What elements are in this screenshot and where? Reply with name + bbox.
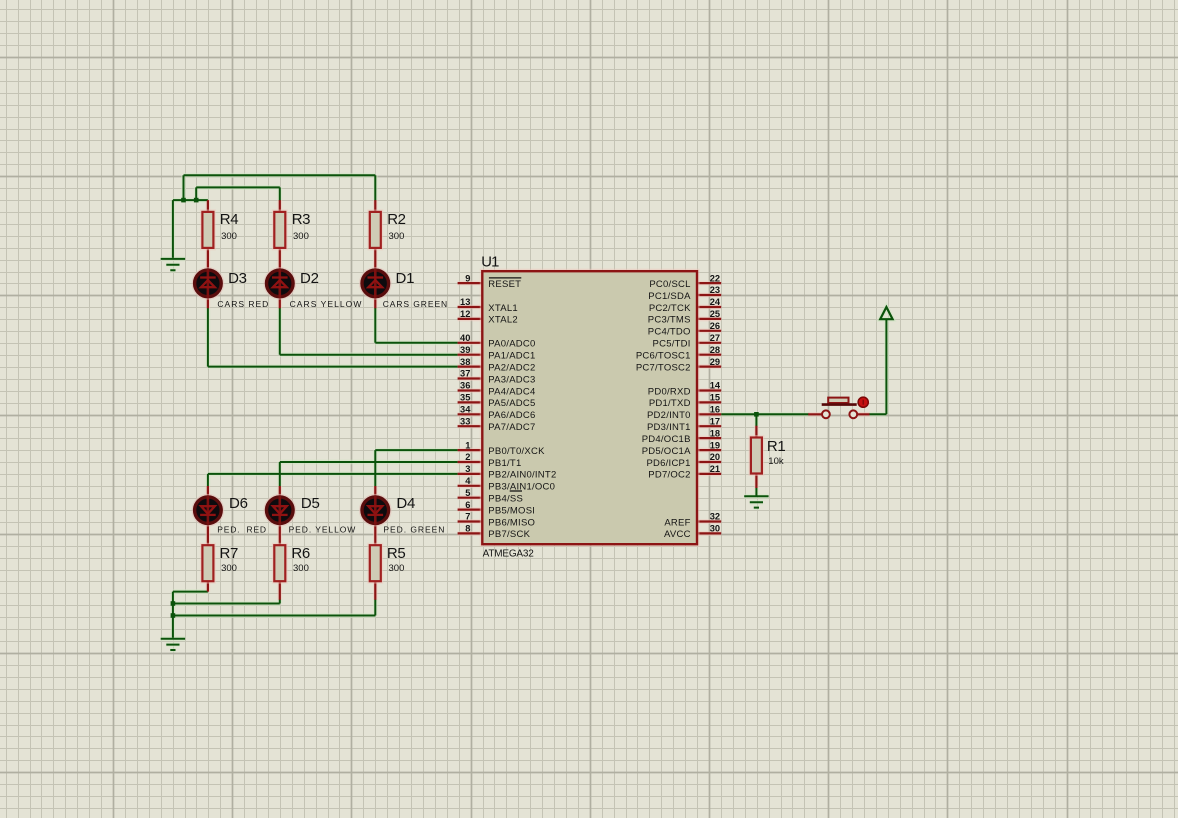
svg-text:PD7/OC2: PD7/OC2 (648, 470, 690, 481)
svg-text:9: 9 (465, 273, 470, 283)
svg-text:PD0/RXD: PD0/RXD (648, 386, 691, 397)
svg-text:PB4/SS: PB4/SS (488, 494, 523, 505)
svg-text:XTAL2: XTAL2 (488, 315, 518, 326)
svg-text:D2: D2 (300, 270, 319, 287)
svg-text:PD1/TXD: PD1/TXD (649, 398, 691, 409)
svg-text:R7: R7 (220, 545, 238, 562)
svg-text:AVCC: AVCC (664, 529, 691, 540)
svg-text:PB7/SCK: PB7/SCK (488, 529, 530, 540)
svg-text:300: 300 (221, 563, 237, 574)
svg-text:PA3/ADC3: PA3/ADC3 (488, 374, 535, 385)
svg-text:U1: U1 (481, 255, 499, 271)
svg-text:37: 37 (460, 369, 470, 379)
svg-text:CARS GREEN: CARS GREEN (383, 299, 448, 309)
svg-text:R1: R1 (767, 438, 785, 455)
svg-text:RESET: RESET (488, 279, 521, 290)
svg-text:D4: D4 (396, 495, 415, 512)
svg-text:PED. GREEN: PED. GREEN (383, 525, 445, 535)
svg-text:PC3/TMS: PC3/TMS (648, 315, 691, 326)
svg-text:PB5/MOSI: PB5/MOSI (488, 505, 535, 516)
svg-text:300: 300 (293, 231, 309, 242)
svg-text:13: 13 (460, 297, 470, 307)
svg-text:6: 6 (465, 500, 470, 510)
svg-text:R3: R3 (292, 211, 310, 228)
svg-text:17: 17 (710, 416, 720, 426)
svg-text:PB2/AIN0/INT2: PB2/AIN0/INT2 (488, 470, 556, 481)
svg-text:D6: D6 (229, 495, 248, 512)
svg-text:16: 16 (710, 405, 720, 415)
svg-text:D1: D1 (396, 270, 415, 287)
svg-text:34: 34 (460, 405, 471, 415)
svg-text:PB6/MISO: PB6/MISO (488, 517, 535, 528)
svg-text:PA1/ADC1: PA1/ADC1 (488, 351, 535, 362)
svg-text:20: 20 (710, 452, 720, 462)
svg-text:AREF: AREF (664, 517, 690, 528)
svg-text:5: 5 (465, 488, 470, 498)
svg-text:4: 4 (465, 476, 471, 486)
svg-text:18: 18 (710, 428, 720, 438)
svg-text:PA0/ADC0: PA0/ADC0 (488, 339, 535, 350)
svg-text:32: 32 (710, 512, 720, 522)
svg-text:PC2/TCK: PC2/TCK (649, 303, 691, 314)
svg-text:PA5/ADC5: PA5/ADC5 (488, 398, 535, 409)
svg-text:24: 24 (710, 297, 721, 307)
svg-text:3: 3 (465, 464, 470, 474)
svg-text:8: 8 (465, 524, 470, 534)
svg-text:PC6/TOSC1: PC6/TOSC1 (636, 351, 691, 362)
svg-text:PC4/TDO: PC4/TDO (648, 327, 691, 338)
svg-text:40: 40 (460, 333, 470, 343)
svg-text:PD6/ICP1: PD6/ICP1 (646, 458, 690, 469)
svg-text:PC0/SCL: PC0/SCL (649, 279, 690, 290)
svg-text:PA7/ADC7: PA7/ADC7 (488, 422, 535, 433)
svg-text:39: 39 (460, 345, 470, 355)
svg-text:38: 38 (460, 357, 470, 367)
svg-text:PB0/T0/XCK: PB0/T0/XCK (488, 446, 545, 457)
svg-text:PB1/T1: PB1/T1 (488, 458, 521, 469)
svg-text:PED. RED: PED. RED (217, 525, 267, 535)
svg-text:300: 300 (221, 231, 237, 242)
svg-text:10k: 10k (768, 456, 784, 467)
svg-text:PD5/OC1A: PD5/OC1A (642, 446, 691, 457)
svg-text:15: 15 (710, 393, 720, 403)
svg-text:27: 27 (710, 333, 720, 343)
svg-text:PA4/ADC4: PA4/ADC4 (488, 386, 535, 397)
svg-text:300: 300 (389, 231, 405, 242)
svg-text:PC5/TDI: PC5/TDI (653, 339, 691, 350)
svg-text:35: 35 (460, 393, 470, 403)
svg-text:28: 28 (710, 345, 720, 355)
svg-text:R2: R2 (387, 211, 405, 228)
svg-text:PC7/TOSC2: PC7/TOSC2 (636, 362, 691, 373)
svg-text:26: 26 (710, 321, 720, 331)
svg-text:22: 22 (710, 273, 720, 283)
svg-text:R5: R5 (387, 545, 405, 562)
svg-text:PD3/INT1: PD3/INT1 (647, 422, 691, 433)
svg-text:19: 19 (710, 440, 720, 450)
svg-text:33: 33 (460, 416, 470, 426)
svg-text:2: 2 (465, 452, 470, 462)
svg-text:23: 23 (710, 285, 720, 295)
svg-text:XTAL1: XTAL1 (488, 303, 518, 314)
svg-text:D3: D3 (228, 270, 247, 287)
svg-text:14: 14 (710, 381, 721, 391)
svg-text:PD4/OC1B: PD4/OC1B (642, 434, 691, 445)
svg-text:300: 300 (293, 563, 309, 574)
svg-text:36: 36 (460, 381, 470, 391)
svg-text:CARS YELLOW: CARS YELLOW (290, 299, 363, 309)
svg-text:R6: R6 (291, 545, 309, 562)
svg-text:1: 1 (465, 440, 470, 450)
svg-text:12: 12 (460, 309, 470, 319)
svg-text:7: 7 (465, 512, 470, 522)
svg-text:R4: R4 (220, 211, 238, 228)
svg-text:25: 25 (710, 309, 720, 319)
svg-text:PD2/INT0: PD2/INT0 (647, 410, 691, 421)
svg-text:29: 29 (710, 357, 720, 367)
svg-text:300: 300 (389, 563, 405, 574)
svg-text:30: 30 (710, 524, 720, 534)
svg-text:D5: D5 (301, 495, 320, 512)
svg-text:ATMEGA32: ATMEGA32 (483, 548, 535, 559)
svg-text:PED. YELLOW: PED. YELLOW (289, 525, 357, 535)
svg-text:PA6/ADC6: PA6/ADC6 (488, 410, 535, 421)
svg-text:CARS RED: CARS RED (217, 299, 269, 309)
svg-text:PA2/ADC2: PA2/ADC2 (488, 362, 535, 373)
svg-text:PC1/SDA: PC1/SDA (648, 291, 691, 302)
svg-text:21: 21 (710, 464, 720, 474)
